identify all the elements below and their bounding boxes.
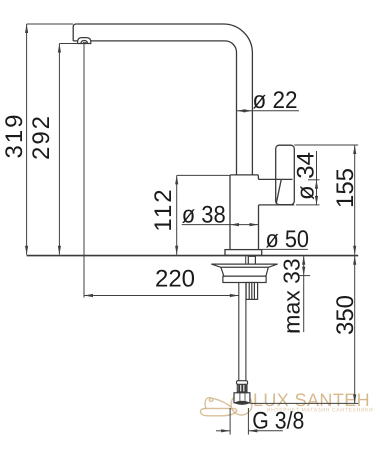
dim 220	[84, 44, 239, 298]
threaded stud	[246, 283, 258, 300]
svg-text:max 33: max 33	[279, 258, 305, 333]
svg-text:ø 50: ø 50	[266, 226, 310, 253]
svg-text:ø 34: ø 34	[293, 152, 320, 200]
horn washer	[211, 264, 277, 267]
svg-text:292: 292	[28, 114, 55, 160]
dim 155	[353, 145, 356, 255]
center line	[245, 256, 247, 282]
hose crimp collar	[237, 381, 248, 393]
svg-text:G 3/8: G 3/8	[252, 408, 304, 435]
dim ø34	[294, 145, 358, 205]
aerator	[78, 38, 91, 44]
mounting nut	[223, 276, 266, 282]
dim G3/8	[216, 408, 283, 435]
dim 350	[250, 256, 358, 404]
svg-text:319: 319	[1, 112, 28, 158]
watermark logo swan	[200, 394, 252, 416]
svg-text:112: 112	[150, 187, 177, 231]
dim ø50 leader	[262, 248, 308, 250]
dim 319	[25, 24, 73, 255]
dim ø22	[237, 109, 300, 112]
svg-text:350: 350	[332, 295, 359, 335]
G3/8 connection nut	[234, 393, 250, 405]
svg-text:ø 22: ø 22	[253, 87, 298, 114]
svg-text:220: 220	[155, 266, 195, 293]
dim ø38	[182, 223, 259, 226]
faucet body ø38	[230, 175, 294, 250]
dim 112	[175, 175, 229, 254]
washer cone block	[221, 267, 268, 276]
supply hose	[239, 283, 246, 381]
dim 292	[58, 44, 78, 255]
handle housing ø34	[276, 145, 295, 204]
countertop baseline	[27, 255, 359, 257]
dim max 33	[290, 256, 310, 332]
tube below flange	[248, 256, 255, 264]
svg-text:ø 38: ø 38	[182, 201, 226, 228]
base flange ø50	[225, 250, 262, 256]
svg-text:155: 155	[332, 168, 359, 208]
spout outline	[73, 24, 252, 175]
